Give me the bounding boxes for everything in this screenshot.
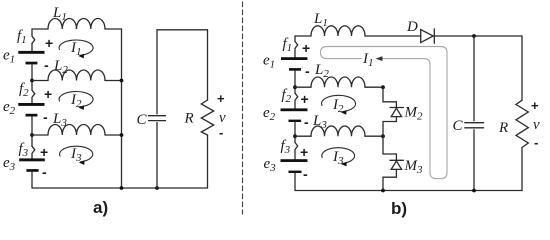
svg-text:-: - <box>303 166 308 182</box>
resistor R branch b top <box>521 36 523 100</box>
node L3-M3 <box>381 134 385 138</box>
svg-text:+: + <box>40 144 48 160</box>
fuse f3 <box>32 146 35 158</box>
svg-text:-: - <box>219 125 223 140</box>
I1 band arrowhead <box>376 56 383 61</box>
node e2-L3 <box>30 133 34 137</box>
svg-text:C: C <box>453 118 464 134</box>
wire e3 to rail b <box>294 173 296 191</box>
wire e2 to node b <box>294 122 296 143</box>
wire top-left to L1 <box>31 43 33 51</box>
current loop I3 a <box>60 146 93 162</box>
resistor R zigzag <box>201 100 213 135</box>
svg-text:-: - <box>43 109 48 125</box>
svg-text:+: + <box>301 91 309 107</box>
wire L2 row <box>32 80 48 82</box>
capacitor C branch b bottom <box>473 130 475 191</box>
node M3-rail <box>381 189 385 193</box>
svg-text:f2: f2 <box>282 87 292 105</box>
capacitor C branch top wire <box>156 30 158 114</box>
wire to M2 node <box>365 86 383 88</box>
capacitor C plates <box>149 116 166 121</box>
node bus-rail <box>120 186 124 190</box>
resistor R bottom wire b <box>521 148 523 191</box>
battery e1 <box>18 51 44 65</box>
wire diode to corner <box>434 35 522 37</box>
top edge C-R rect <box>157 29 208 31</box>
svg-text:e2: e2 <box>3 99 16 117</box>
node e1-L2 <box>30 79 34 83</box>
svg-text:e3: e3 <box>264 156 277 174</box>
mosfet M3 wires <box>383 136 396 160</box>
node C top <box>472 34 476 38</box>
svg-text:v: v <box>533 117 540 133</box>
wire to diode <box>365 35 421 37</box>
wire e1 to node b <box>294 71 296 94</box>
node L3-bus <box>120 133 124 137</box>
svg-text:-: - <box>44 57 49 73</box>
svg-text:-: - <box>304 114 309 130</box>
svg-text:L1: L1 <box>313 11 328 29</box>
wire <box>32 28 48 30</box>
svg-text:a): a) <box>93 198 108 217</box>
node L2-bus <box>120 79 124 83</box>
current loop I3 b <box>322 148 355 164</box>
mosfet M2 diode <box>390 107 404 109</box>
wire right bus <box>121 29 123 188</box>
svg-text:f1: f1 <box>283 36 293 54</box>
battery e1 b <box>281 57 307 70</box>
wire e3 to rail <box>31 172 33 188</box>
svg-text:f3: f3 <box>19 141 29 159</box>
svg-text:-: - <box>534 135 538 150</box>
node e1-L2 b <box>293 85 297 89</box>
svg-text:I1: I1 <box>70 40 82 58</box>
inductor L3 <box>48 124 105 135</box>
wire L3 row <box>32 134 48 136</box>
svg-text:I3: I3 <box>70 146 82 164</box>
wire e1 to node <box>31 64 33 90</box>
node L2-M2 <box>381 85 385 89</box>
svg-text:f3: f3 <box>281 138 291 156</box>
fuse f3 b <box>295 143 298 160</box>
svg-text:I1: I1 <box>362 51 374 69</box>
current loop I2 b <box>322 95 356 111</box>
battery e2 <box>18 103 44 117</box>
resistor R branch top wire <box>207 30 209 100</box>
inductor L1 <box>48 18 105 29</box>
inductor L2 b <box>311 77 365 87</box>
resistor R bottom wire <box>207 135 209 188</box>
wire L2 row b <box>295 86 311 88</box>
svg-text:L2: L2 <box>53 58 68 76</box>
svg-text:L2: L2 <box>314 62 329 80</box>
svg-text:f1: f1 <box>17 28 27 46</box>
inductor L1 b <box>311 26 365 36</box>
node C-rail <box>472 189 476 193</box>
svg-text:L3: L3 <box>312 113 327 131</box>
dashed divider line <box>242 2 244 214</box>
mosfet M3 diode <box>390 159 404 161</box>
node e2-L3 b <box>293 134 297 138</box>
wire to M3 node <box>365 135 383 137</box>
wire e2 to node <box>31 117 33 147</box>
wire top-left column <box>294 48 296 57</box>
capacitor C plates b <box>465 123 484 128</box>
diode D <box>421 30 434 43</box>
svg-text:v: v <box>219 110 226 126</box>
svg-text:M2: M2 <box>404 105 424 123</box>
fuse f2 b <box>295 93 298 108</box>
svg-text:e1: e1 <box>263 53 275 71</box>
fuse f2 <box>32 90 35 103</box>
svg-text:+: + <box>45 35 53 51</box>
mosfet M2 wires <box>383 87 396 107</box>
capacitor C bottom wire <box>156 123 158 189</box>
current loop I1 a <box>59 40 93 55</box>
svg-text:R: R <box>498 120 508 136</box>
svg-text:-: - <box>42 164 47 180</box>
svg-text:R: R <box>184 111 194 127</box>
svg-text:+: + <box>44 86 52 102</box>
wire <box>105 28 122 30</box>
svg-text:C: C <box>137 112 148 128</box>
svg-text:e2: e2 <box>263 105 276 123</box>
battery e3 b <box>281 159 308 173</box>
svg-text:-: - <box>305 63 310 79</box>
capacitor C branch b top <box>473 36 475 121</box>
svg-text:e3: e3 <box>3 155 16 173</box>
fuse f1 <box>32 29 35 43</box>
battery e2 b <box>281 108 308 122</box>
svg-text:I2: I2 <box>70 92 82 110</box>
svg-text:M3: M3 <box>404 158 424 176</box>
svg-text:+: + <box>531 98 539 113</box>
svg-text:+: + <box>217 91 225 106</box>
svg-text:f2: f2 <box>19 81 29 99</box>
fuse f1 b <box>295 36 298 48</box>
svg-text:+: + <box>300 144 308 160</box>
svg-text:I3: I3 <box>332 149 344 167</box>
inductor L3 b <box>311 126 365 136</box>
svg-text:e1: e1 <box>3 48 15 66</box>
inductor L2 <box>48 70 105 81</box>
wire <box>105 80 122 82</box>
svg-text:L3: L3 <box>52 111 67 129</box>
resistor R zigzag b <box>516 100 528 147</box>
svg-text:D: D <box>406 19 418 35</box>
wire L3 row b <box>295 135 311 137</box>
current loop I1 band <box>321 47 448 179</box>
svg-text:b): b) <box>391 199 407 218</box>
node C-rail a <box>155 186 159 190</box>
current loop I2 a <box>59 92 93 107</box>
svg-text:I2: I2 <box>332 97 344 115</box>
wire <box>105 134 122 136</box>
battery e3 <box>19 158 45 171</box>
svg-text:L1: L1 <box>52 5 67 23</box>
svg-text:+: + <box>302 40 310 56</box>
bottom rail a <box>32 187 208 189</box>
wire <box>295 35 311 37</box>
bottom rail b <box>295 190 522 192</box>
